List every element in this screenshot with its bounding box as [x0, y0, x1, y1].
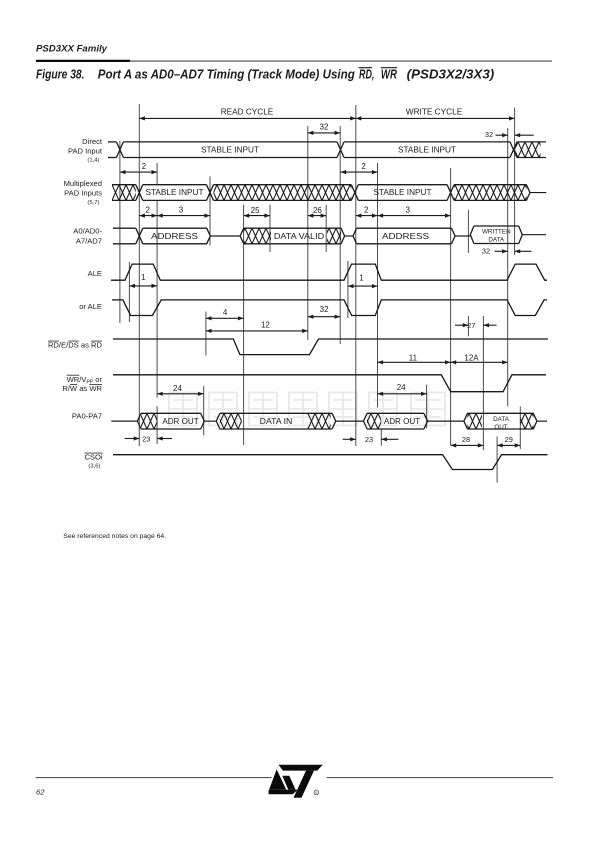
svg-text:23: 23: [365, 435, 373, 444]
measure 3 (addr hold, read): [157, 215, 210, 217]
ref line: read cycle start / ALE rise (x=139): [138, 104, 140, 446]
waveform: written data hexagon: [470, 226, 546, 244]
figure title: [36, 66, 494, 81]
ref line: wr rise ref (x=483.4): [482, 316, 484, 450]
ref line: write cycle end (x=507.7): [507, 128, 509, 407]
tick: mux stable (x=157) upper: [156, 163, 158, 185]
waveform: ALE: [111, 264, 547, 280]
svg-text:DATA: DATA: [493, 416, 510, 423]
tick: 29 end (x=520.3): [519, 407, 521, 450]
svg-text:ADR OUT: ADR OUT: [162, 417, 198, 426]
watermark: [169, 393, 445, 426]
tick: 24 end (x=203.7): [203, 386, 205, 436]
row label: RD/E/DS as RD: [48, 341, 103, 350]
ref line: write cycle start (x=356): [355, 105, 357, 446]
svg-text:STABLE INPUT: STABLE INPUT: [398, 145, 456, 154]
waveform: CSOi: [113, 455, 548, 470]
svg-text:See referenced notes on page 6: See referenced notes on page 64.: [63, 533, 166, 540]
tick: 27 start (x=468) lower: [467, 316, 469, 336]
measure 32 (rd recovery): [308, 316, 340, 318]
svg-text:READ CYCLE: READ CYCLE: [221, 108, 274, 117]
waveform: or ALE: [112, 300, 547, 316]
svg-text:DATA VALID: DATA VALID: [274, 232, 325, 241]
svg-text:ALE: ALE: [88, 269, 102, 278]
measure 2 (direct pad to mux stable, read): [120, 171, 157, 173]
svg-text:A0/AD0-: A0/AD0-: [73, 227, 102, 236]
row label: WR/Vpp or R/W as WR: [62, 375, 102, 393]
svg-text:12A: 12A: [464, 353, 479, 362]
waveform: Multiplexed PAD Inputs: [112, 185, 546, 201]
measure 2 (direct pad to mux stable, write): [341, 171, 378, 173]
tick: wr 23 end (x=381): [380, 429, 382, 446]
measure 29: [497, 435, 520, 448]
svg-text:32: 32: [482, 247, 490, 256]
ref line: write addr ref (x=377.5): [377, 163, 379, 408]
svg-text:Direct: Direct: [82, 137, 103, 146]
svg-text:PA0-PA7: PA0-PA7: [72, 411, 102, 420]
tick: written-data (x=468) upper: [467, 210, 469, 253]
tick: mux stable (x=157) lower: [156, 406, 158, 444]
svg-text:OUT: OUT: [494, 424, 507, 431]
row label: A0/AD0-A7/AD7: [73, 227, 102, 246]
svg-text:2: 2: [142, 162, 147, 171]
measure 23 (write): [343, 435, 399, 444]
svg-text:2: 2: [361, 162, 366, 171]
ST logo: [269, 765, 323, 798]
svg-text:2: 2: [364, 205, 369, 214]
svg-text:STABLE INPUT: STABLE INPUT: [374, 188, 432, 197]
svg-text:12: 12: [261, 321, 270, 330]
measure 12A: [451, 361, 508, 363]
svg-text:3: 3: [405, 205, 410, 214]
measure 24 (write): [378, 393, 427, 395]
waveform: WR/Vpp or R/W as WR: [113, 375, 546, 392]
svg-text:A7/AD7: A7/AD7: [76, 237, 102, 246]
svg-text:3: 3: [179, 205, 184, 214]
svg-text:62: 62: [36, 788, 45, 797]
tick: rd-fall ref (x=206): [205, 312, 207, 356]
svg-text:RD/E/DS as RD: RD/E/DS as RD: [48, 341, 103, 350]
waveform: Direct PAD Input: [108, 142, 546, 158]
measure 1 (ALE width, read): [129, 285, 157, 287]
ref line: rd rise ref (x=308): [307, 126, 309, 340]
row label: Direct PAD Input: [68, 137, 103, 164]
svg-text:Multiplexed: Multiplexed: [64, 179, 102, 188]
svg-text:ADDRESS: ADDRESS: [151, 232, 198, 241]
svg-text:STABLE INPUT: STABLE INPUT: [146, 188, 204, 197]
page header rule: [36, 60, 130, 62]
svg-text:WR: WR: [381, 66, 398, 81]
svg-text:DATA: DATA: [488, 237, 505, 244]
ref line: data valid start (x=243.6): [243, 205, 245, 445]
row label: Multiplexed PAD Inputs: [64, 179, 103, 206]
svg-text:32: 32: [485, 130, 493, 139]
waveform: PA0-PA7: [111, 413, 547, 431]
svg-text:WRITE CYCLE: WRITE CYCLE: [406, 108, 462, 117]
svg-text:PAD Input: PAD Input: [68, 146, 103, 155]
svg-text:32: 32: [320, 122, 329, 131]
measure 23 (read): [125, 434, 172, 443]
measure 2 (addr setup, read): [139, 215, 157, 217]
svg-text:1: 1: [141, 273, 146, 282]
ref line: write data ref (x=450.6): [450, 168, 452, 445]
ref line: ale3 ref (x=514.6): [514, 108, 516, 256]
measure 1 (ALE width, write): [348, 285, 378, 287]
svg-text:PSD3XX Family: PSD3XX Family: [36, 44, 108, 54]
svg-text:WRITTEN: WRITTEN: [482, 229, 511, 236]
measure 26: [308, 215, 326, 217]
svg-text:Port A as AD0–AD7 Timing (Trac: Port A as AD0–AD7 Timing (Track Mode) Us…: [98, 66, 355, 81]
svg-text:ADDRESS: ADDRESS: [382, 232, 429, 241]
tick: data valid (x=270): [269, 205, 271, 252]
svg-text:ADR OUT: ADR OUT: [384, 417, 420, 426]
tick: ALE mid-rise (x=129): [128, 262, 130, 322]
svg-text:25: 25: [251, 206, 260, 215]
svg-text:26: 26: [313, 206, 322, 215]
svg-text:STABLE INPUT: STABLE INPUT: [201, 145, 259, 154]
svg-text:24: 24: [397, 383, 406, 392]
svg-text:(1,4): (1,4): [87, 158, 99, 164]
svg-text:(PSD3X2/3X3): (PSD3X2/3X3): [407, 66, 495, 81]
measure 24 (read): [157, 393, 204, 395]
measure 28: [451, 435, 484, 448]
measure 11: [378, 361, 451, 363]
tick: 26 end (x=326): [325, 205, 327, 252]
svg-text:24: 24: [173, 384, 182, 393]
waveform: RD/E/DS as RD: [113, 339, 548, 355]
tick: wr 24 end (x=426.6): [426, 385, 428, 428]
waveform: A0/AD0-A7/AD7: [113, 228, 470, 244]
svg-text:11: 11: [409, 353, 418, 362]
svg-text:DATA IN: DATA IN: [260, 417, 293, 426]
tick: mux stable (x=157) main: [156, 200, 158, 397]
svg-text:RD,: RD,: [359, 66, 374, 81]
svg-text:29: 29: [505, 435, 513, 444]
measure 2 (addr setup, write): [356, 215, 378, 217]
svg-text:27: 27: [467, 321, 475, 330]
svg-text:23: 23: [142, 434, 150, 443]
svg-text:or ALE: or ALE: [79, 302, 102, 311]
tick: ALE2 mid-rise (x=348): [347, 261, 349, 318]
svg-text:1: 1: [359, 274, 364, 283]
tick: csoi rise ref (x=497): [496, 436, 498, 482]
measure 32 (end of read cycle): [308, 132, 340, 134]
svg-text:(5,7): (5,7): [87, 200, 99, 206]
measure 4: [206, 317, 244, 319]
svg-text:(3,6): (3,6): [88, 464, 100, 470]
svg-text:PAD Inputs: PAD Inputs: [64, 188, 102, 197]
footer rule: [36, 777, 272, 779]
measure 25: [244, 215, 270, 217]
ref line: read cycle end (x=340): [339, 126, 341, 344]
measure 12: [206, 330, 308, 332]
ref line: direct-pad change (x=120): [119, 141, 121, 323]
measure 3 (addr hold, write): [378, 215, 451, 217]
svg-text:R/W as WR: R/W as WR: [62, 384, 102, 393]
row label: CSOi: [84, 453, 102, 470]
svg-text:2: 2: [145, 205, 150, 214]
svg-text:4: 4: [223, 308, 228, 317]
svg-text:Figure 38.: Figure 38.: [36, 66, 85, 81]
svg-text:CSOi: CSOi: [84, 453, 102, 462]
svg-text:28: 28: [462, 435, 470, 444]
tick: address end (x=210): [209, 177, 211, 246]
svg-text:32: 32: [320, 305, 329, 314]
